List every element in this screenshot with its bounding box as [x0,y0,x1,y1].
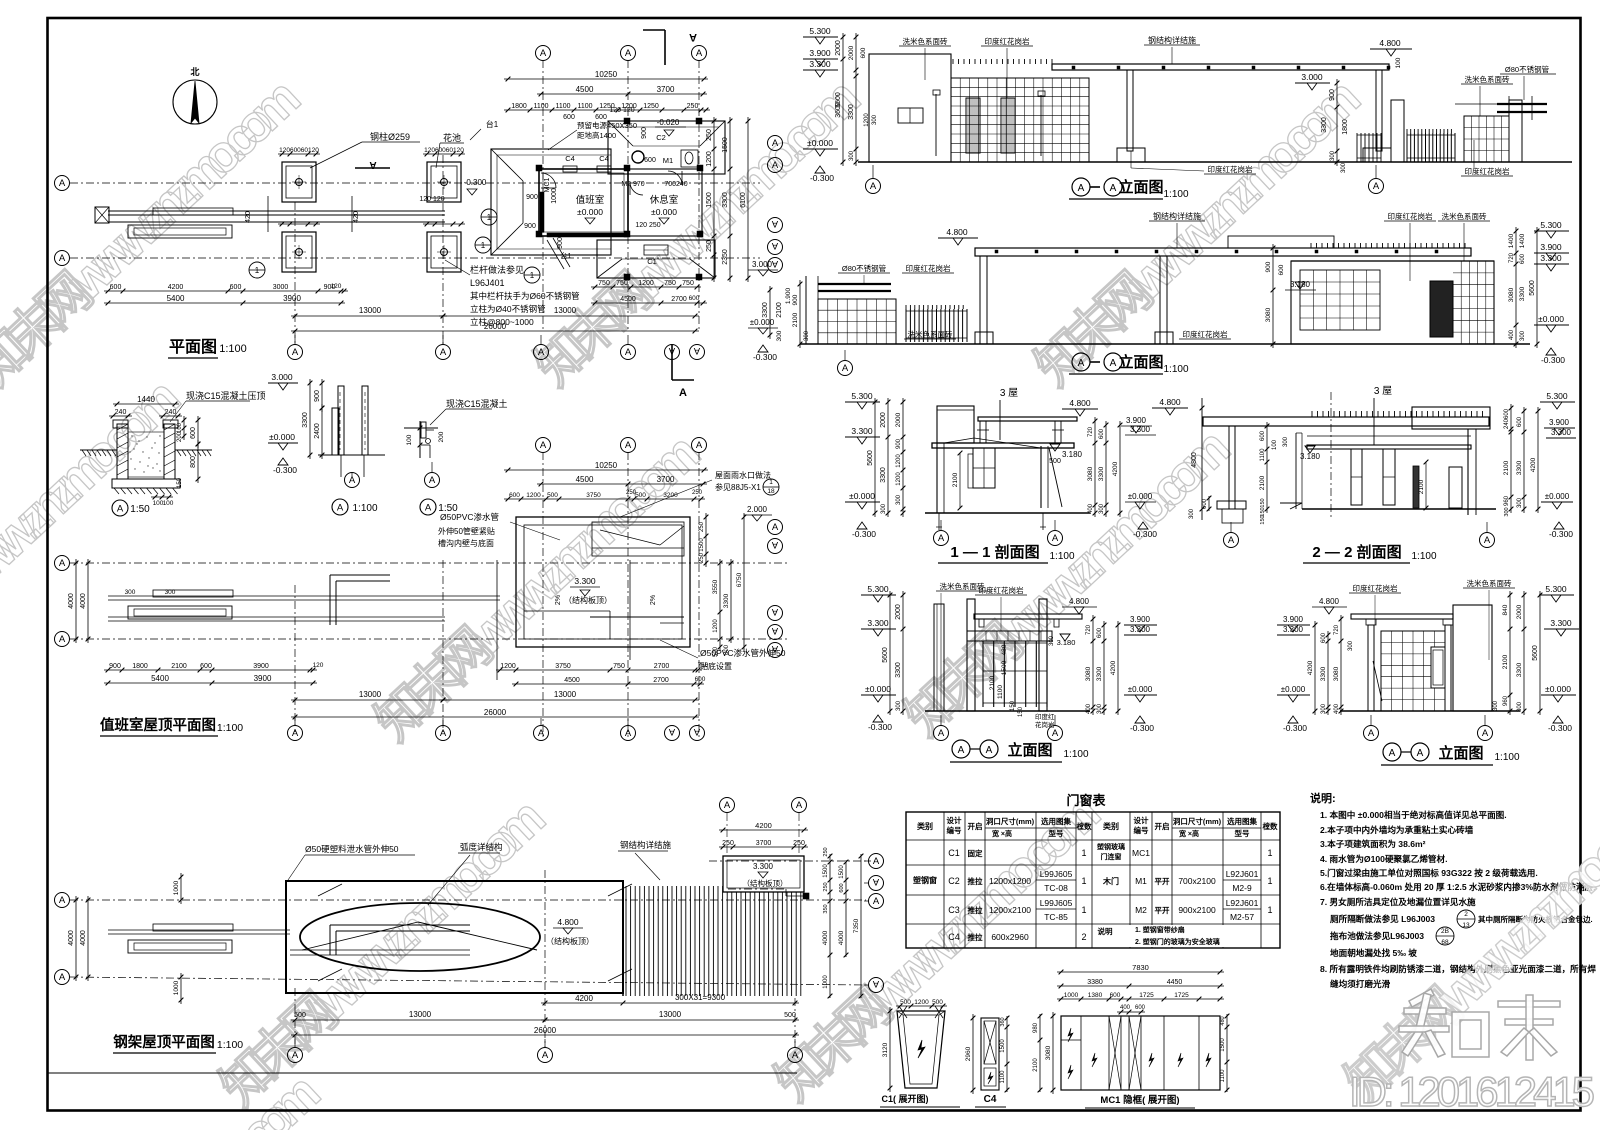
svg-text:1500: 1500 [1001,660,1008,675]
svg-text:A: A [696,440,703,451]
svg-text:4500: 4500 [564,677,580,684]
svg-text:5600: 5600 [1532,645,1539,661]
svg-text:12060060120: 12060060120 [279,147,319,154]
svg-text:立面图: 立面图 [1007,741,1052,759]
svg-text:型号: 型号 [1235,828,1251,838]
svg-text:外伸50管壁紧贴: 外伸50管壁紧贴 [438,526,495,536]
table: grid [906,812,1280,948]
elev2: left handrail [818,283,891,285]
svg-text:2B: 2B [1441,928,1449,935]
svg-text:L92J601: L92J601 [1226,898,1259,908]
notes: circle 2B/68 [1436,927,1454,945]
svg-text:300: 300 [1099,503,1105,514]
svg-text:1: 1 [487,213,492,222]
svg-text:900x2100: 900x2100 [1178,905,1216,915]
elev1: left pylon [869,54,951,162]
plan: roof bottom-right wing [597,240,715,278]
svg-text:600: 600 [644,157,656,164]
svg-text:600: 600 [1278,264,1285,275]
sec11: interior dim 2100 [959,453,961,508]
svg-text:3900: 3900 [253,663,269,670]
svg-text:2000: 2000 [895,412,902,427]
steelroof: axis A lower [70,977,866,985]
svg-text:设计: 设计 [947,815,962,825]
svg-text:1200x2100: 1200x2100 [989,905,1031,915]
svg-text:1800: 1800 [511,103,527,110]
svg-text:3.300: 3.300 [1130,425,1151,434]
svg-text:±0.000: ±0.000 [750,318,775,327]
svg-text:立柱为Ø40不锈钢管: 立柱为Ø40不锈钢管 [470,304,546,314]
svg-text:150: 150 [1260,515,1266,524]
elevL: left gate post [967,599,975,711]
detail: foundation top caps [113,420,128,428]
svg-text:600: 600 [1099,428,1105,439]
svg-text:240600: 240600 [1504,408,1510,429]
steelroof: slope tick marks [318,884,342,896]
elevR: left post [1368,625,1374,711]
svg-text:300: 300 [1520,330,1526,341]
svg-text:A: A [1052,728,1059,739]
svg-text:±0.000: ±0.000 [577,207,603,217]
svg-text:2000: 2000 [880,412,887,428]
steelroof: axis A upper [70,899,866,901]
svg-text:-0.020: -0.020 [657,118,680,127]
roofplan: bottom dims [104,669,317,671]
svg-text:13000: 13000 [409,1010,432,1019]
svg-text:A: A [771,539,778,550]
svg-text:3750: 3750 [555,663,571,670]
svg-text:1 — 1 剖面图: 1 — 1 剖面图 [950,543,1039,561]
svg-text:洞口尺寸(mm): 洞口尺寸(mm) [1172,816,1222,826]
svg-text:1100: 1100 [555,103,570,110]
svg-text:1: 1 [255,266,260,275]
c1detail: trapezoid [897,1011,945,1088]
elev1: right pillar [1391,100,1404,162]
mc1: left dims [1052,1012,1054,1094]
svg-text:A: A [689,31,697,43]
svg-text:3.900: 3.900 [1540,242,1562,252]
svg-text:720: 720 [1088,426,1094,437]
svg-text:3.000: 3.000 [1301,72,1323,82]
svg-text:ID: 1201612415: ID: 1201612415 [1349,1068,1595,1115]
svg-text:1400: 1400 [1519,233,1526,248]
svg-text:1200: 1200 [638,280,654,287]
sec22: parapet top right [1412,407,1490,429]
sec22: mid dim chain [1266,422,1268,513]
svg-text:4000: 4000 [838,930,845,945]
svg-text:-0.300: -0.300 [868,722,892,732]
svg-text:720: 720 [1509,252,1515,263]
svg-text:1800: 1800 [1342,119,1349,135]
svg-text:600: 600 [1202,498,1208,509]
sec22: door [1449,467,1462,508]
roofplan: bottom circles [288,726,303,741]
svg-text:1500: 1500 [699,538,705,552]
svg-text:3.900: 3.900 [1126,416,1147,425]
svg-text:-0.300: -0.300 [1130,723,1154,733]
sec11: canopy slab 4800 [978,417,1077,421]
svg-text:A: A [772,160,779,171]
svg-text:M2-57: M2-57 [1230,912,1254,922]
svg-text:Ø50PVC渗水管: Ø50PVC渗水管 [440,512,499,522]
svg-text:MC1: MC1 [544,178,551,193]
sec22: interior dim 2100 [1425,462,1427,508]
svg-text:TC-85: TC-85 [1044,912,1068,922]
svg-text:门连窗: 门连窗 [1101,852,1122,861]
svg-text:±0.000: ±0.000 [865,684,891,694]
svg-text:1725: 1725 [1139,992,1154,999]
svg-text:3.300: 3.300 [851,426,873,436]
detail: corner title [420,499,436,515]
elev1: tall window right [1001,98,1015,153]
elev2: left dims [799,280,801,348]
svg-text:±0.000: ±0.000 [1538,314,1564,324]
svg-text:900: 900 [1265,261,1272,272]
plan: right dims 3300 2100 [769,286,771,339]
svg-text:600: 600 [839,883,845,892]
svg-text:A: A [938,728,945,739]
svg-text:樘数: 樘数 [1077,821,1093,831]
svg-text:1200: 1200 [914,999,929,1006]
svg-text:钢柱Ø259: 钢柱Ø259 [370,131,410,142]
svg-text:4000: 4000 [68,593,75,609]
svg-text:A: A [59,253,66,264]
svg-text:L99J605: L99J605 [1040,898,1073,908]
svg-text:700x2100: 700x2100 [1178,876,1216,886]
svg-text:厕所隔断做法参见 L96J003: 厕所隔断做法参见 L96J003 [1330,913,1435,924]
c4detail: lightning glyph [988,1072,993,1084]
steelroof: barrier arm [108,929,290,931]
svg-text:1: 1 [481,241,486,250]
plan: columns poche [536,165,542,171]
svg-text:3080: 3080 [1333,666,1340,681]
svg-text:240: 240 [165,409,177,416]
svg-text:A: A [625,347,632,358]
svg-text:3.300: 3.300 [1540,253,1562,263]
svg-text:3.300: 3.300 [574,576,596,586]
svg-text:600: 600 [200,663,212,670]
svg-text:3700: 3700 [756,840,772,847]
svg-text:26000: 26000 [484,322,507,331]
svg-text:宽 ×高: 宽 ×高 [1178,829,1199,838]
svg-text:900: 900 [792,294,799,305]
svg-text:1: 1 [1081,848,1086,858]
svg-text:（结构板顶）: （结构板顶） [564,595,612,605]
svg-text:A: A [1228,535,1235,546]
detail: corner grid circle [425,473,440,488]
c1detail: lightning glyph [918,1040,925,1058]
svg-text:4.800: 4.800 [557,917,579,927]
plan: basin fixture [632,151,644,163]
svg-text:120: 120 [313,662,324,669]
svg-text:A: A [771,258,778,269]
svg-text:参见88J5-X1: 参见88J5-X1 [715,482,761,492]
svg-text:300: 300 [881,503,887,514]
svg-text:7350: 7350 [853,918,860,933]
elevL: gate mid rail [983,670,1047,672]
elev2: title [1072,353,1090,371]
sec22: left vertical dim line [1201,398,1203,520]
svg-text:（结构板顶）: （结构板顶） [546,936,594,946]
svg-text:1200: 1200 [706,151,713,167]
svg-text:600: 600 [595,114,607,121]
sec22: ground line [1302,508,1496,510]
svg-text:250: 250 [793,840,805,847]
svg-text:1:100: 1:100 [217,1039,243,1051]
plan: section cut mark A top [664,30,666,65]
plan: bottom dim 26000 [291,330,699,332]
elev1: grid circle left [866,179,881,194]
svg-text:3000: 3000 [273,284,289,291]
svg-text:720: 720 [1086,624,1092,635]
elev1: long fence [1407,133,1455,162]
roofplan: parapet gutter top right [592,522,684,556]
elevL: canopy posts [979,619,984,627]
sec22: canopy slab [1203,417,1489,426]
svg-text:印度红花岗岩: 印度红花岗岩 [1388,211,1433,221]
svg-text:5.300: 5.300 [1540,220,1562,230]
svg-text:2000: 2000 [895,604,902,620]
svg-text:5.门窗过梁由施工单位对照国标 93G322 按 2 级荷载: 5.门窗过梁由施工单位对照国标 93G322 按 2 级荷载选用. [1320,867,1538,878]
svg-text:宽 ×高: 宽 ×高 [991,829,1012,838]
sec11: roof slab [932,443,1074,448]
elevL: header beam [967,631,1052,641]
svg-text:2100: 2100 [1418,479,1425,494]
svg-text:500: 500 [635,492,646,499]
plan: roof top-right wing [608,121,725,174]
plan: right grid circles [768,136,783,151]
mc1: lightning glyphs [1068,1028,1073,1042]
svg-text:1200x1200: 1200x1200 [989,876,1031,886]
svg-text:2100: 2100 [1259,475,1266,490]
svg-text:600: 600 [1520,253,1526,264]
svg-text:樘数: 樘数 [1263,821,1279,831]
svg-text:弧度详结构: 弧度详结构 [460,842,503,852]
svg-text:480: 480 [1220,1016,1226,1025]
svg-text:1100: 1100 [997,685,1004,699]
mc1: frame [1061,1016,1220,1090]
sec22: dark post [1413,466,1419,508]
svg-text:A: A [625,440,632,451]
steelroof: mini plan top dims [719,829,808,831]
svg-text:1:100: 1:100 [1494,752,1519,763]
svg-text:300: 300 [1283,436,1289,447]
svg-text:2000: 2000 [835,40,842,56]
svg-text:2100: 2100 [1502,654,1509,669]
svg-text:250: 250 [706,240,713,252]
svg-text:5.300: 5.300 [1545,584,1567,594]
svg-text:编号: 编号 [1134,825,1150,835]
svg-text:1200: 1200 [526,492,541,499]
table: row4 merged cell mask [1093,925,1259,947]
svg-text:3.300: 3.300 [1551,428,1572,437]
svg-text:3.300: 3.300 [809,59,831,69]
svg-text:250: 250 [706,129,713,141]
svg-text:A: A [958,745,965,756]
detail: ground hatch left [80,449,117,451]
svg-text:960: 960 [1503,695,1509,706]
c4detail: frame [981,1018,999,1090]
svg-text:-0.300: -0.300 [464,178,487,187]
svg-text:1200: 1200 [500,663,516,670]
svg-text:A: A [1482,728,1489,739]
svg-text:100: 100 [1395,57,1402,68]
plan: toilet fixture [681,150,698,167]
svg-text:5600: 5600 [867,450,874,466]
svg-text:MC1 隐框( 展开图): MC1 隐框( 展开图) [1100,1094,1179,1106]
svg-text:1250: 1250 [643,103,659,110]
svg-text:300: 300 [1330,150,1336,161]
elev1: canopy column right [1376,70,1382,151]
svg-text:150: 150 [1260,498,1266,507]
svg-text:2100: 2100 [776,302,783,318]
svg-text:A: A [117,504,124,515]
sec22: right wall [1467,429,1469,515]
svg-text:1200: 1200 [896,454,902,468]
svg-text:-0.300: -0.300 [753,352,777,362]
svg-text:A: A [337,503,344,514]
svg-text:2100: 2100 [1503,460,1510,475]
svg-text:12060060120: 12060060120 [424,147,464,154]
svg-text:印度红花岗岩: 印度红花岗岩 [1208,164,1253,174]
svg-text:值班室: 值班室 [576,194,605,206]
plan: window C4 right [597,166,611,172]
svg-text:720: 720 [1334,624,1340,635]
roofplan: top dims [504,469,708,471]
elevR: diagonal [1373,661,1382,701]
svg-text:2960: 2960 [965,1046,972,1061]
svg-text:600: 600 [1321,632,1327,643]
svg-text:900: 900 [1329,89,1336,101]
svg-text:印度红花岗岩: 印度红花岗岩 [1353,583,1398,593]
svg-text:4200: 4200 [575,994,593,1003]
elevR: ground line [1340,710,1520,712]
svg-text:1:100: 1:100 [1049,551,1074,562]
svg-text:3.180: 3.180 [1290,280,1311,289]
svg-text:2700: 2700 [653,677,669,684]
svg-text:洗米色系面砖: 洗米色系面砖 [903,36,948,46]
svg-text:A: A [772,138,779,149]
svg-text:4200: 4200 [755,821,772,830]
svg-text:300: 300 [1049,635,1055,646]
fold line bottom [48,1072,797,1074]
svg-text:A: A [772,522,779,533]
svg-text:150: 150 [177,477,183,488]
svg-text:1100: 1100 [1220,1069,1226,1083]
svg-text:750: 750 [613,663,625,670]
svg-text:A: A [292,728,299,739]
roofplan: right circles [768,520,783,535]
sec22: building interior [1295,433,1297,509]
svg-text:600: 600 [230,284,242,291]
svg-text:900: 900 [109,663,121,670]
svg-text:300: 300 [1321,703,1327,714]
svg-text:选用图集: 选用图集 [1227,816,1257,826]
svg-text:120: 120 [331,283,342,290]
detail: foundation title A 1:50 [112,500,128,516]
svg-text:300: 300 [1341,162,1347,173]
sec22: grid circles [1224,533,1239,548]
svg-text:600: 600 [190,427,197,439]
svg-text:3300: 3300 [1519,286,1526,301]
svg-text:C1( 展开图): C1( 展开图) [882,1094,929,1104]
svg-text:3.本子项建筑面积为 38.6m²: 3.本子项建筑面积为 38.6m² [1320,838,1426,849]
svg-text:1: 1 [769,479,773,486]
plan: wall poche left [540,192,544,232]
svg-text:3.900: 3.900 [1130,615,1151,624]
svg-text:1100: 1100 [577,103,592,110]
svg-text:预留电源450X350: 预留电源450X350 [577,120,637,130]
svg-text:800: 800 [724,644,730,655]
svg-text:开启: 开启 [968,821,983,831]
svg-text:2.本子项中内外墙均为承重粘土实心砖墙: 2.本子项中内外墙均为承重粘土实心砖墙 [1320,824,1474,835]
svg-text:2700: 2700 [671,296,687,303]
svg-text:2100: 2100 [171,663,187,670]
svg-text:A: A [59,634,66,645]
svg-text:1500: 1500 [1220,1038,1226,1052]
svg-text:4. 雨水管为Ø100硬聚氯乙烯管材.: 4. 雨水管为Ø100硬聚氯乙烯管材. [1320,853,1448,864]
svg-text:1:100: 1:100 [352,503,377,514]
svg-text:栏杆做法参见: 栏杆做法参见 [470,264,524,275]
svg-text:750: 750 [698,662,709,669]
svg-text:250: 250 [699,521,705,532]
svg-text:1: 1 [530,271,535,280]
svg-text:500: 500 [932,999,943,1006]
elev1: right tile block [1464,116,1509,162]
plan: bottom grid circles [288,345,303,360]
roofplan: vertical center lines [294,585,296,732]
svg-text:M1: M1 [1135,876,1147,886]
sec11: right wall and strut [1040,446,1042,508]
sec11: interior window [973,448,995,488]
svg-text:420: 420 [245,211,252,223]
svg-text:100: 100 [177,422,183,433]
plan: column cluster mid-upper [427,162,461,202]
svg-text:6750: 6750 [736,572,743,587]
steelroof: center dash vertical [544,870,546,1048]
svg-text:1: 1 [1081,876,1086,886]
plan: guardhouse right room walls [628,169,702,236]
svg-text:A: A [625,48,632,59]
plan: barrier arm rails [108,210,445,212]
sec22: left small dims [1208,496,1210,511]
svg-text:3300: 3300 [1096,666,1103,681]
svg-text:1:100: 1:100 [1163,364,1188,375]
svg-text:600: 600 [1517,416,1523,427]
elevR: right wall block [1453,605,1492,711]
svg-text:3380: 3380 [1087,979,1103,986]
svg-text:3080: 3080 [1265,307,1272,322]
svg-text:平开: 平开 [1155,906,1171,915]
elevR: canopy slab [1351,614,1453,619]
elev1: title [1072,178,1090,196]
svg-text:4200: 4200 [168,284,184,291]
svg-text:立面图: 立面图 [1118,353,1163,371]
plan: vertical center lines to circles [294,202,296,344]
svg-text:1000: 1000 [551,188,558,204]
sec11: ground line [925,512,1090,514]
svg-text:3.180: 3.180 [1062,450,1083,459]
plan: barrier arm segment 2 [153,208,233,215]
elev1: pylon window [898,108,923,123]
plan: bottom dim 13000 left [291,315,447,317]
svg-text:台1: 台1 [486,119,499,129]
svg-text:3200: 3200 [663,492,678,499]
svg-text:A: A [873,896,880,907]
elev2: canopy dots [995,250,998,253]
svg-text:洗米色系面砖: 洗米色系面砖 [908,329,953,339]
svg-text:3120: 3120 [882,1042,889,1057]
